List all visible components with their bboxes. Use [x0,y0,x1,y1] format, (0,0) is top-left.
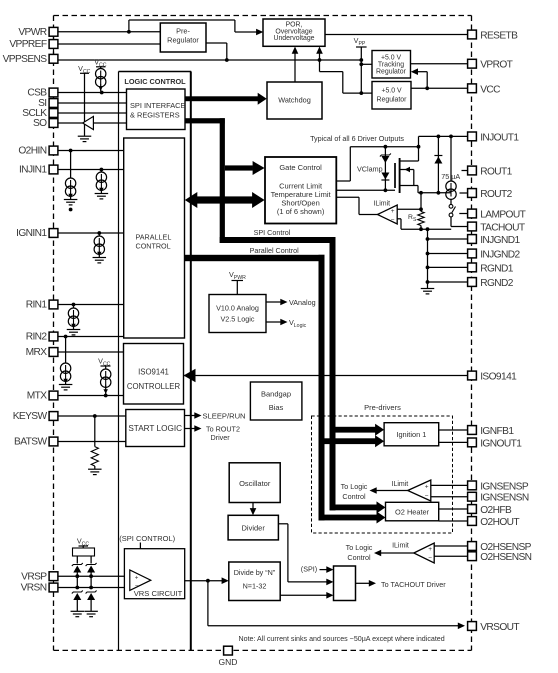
svg-text:VRS CIRCUIT: VRS CIRCUIT [134,589,183,598]
svg-text:−: − [135,583,139,590]
svg-text:Tracking: Tracking [378,62,404,69]
svg-text:Bandgap: Bandgap [261,390,291,399]
svg-text:Regulator: Regulator [376,69,407,76]
svg-text:ILimit: ILimit [392,542,409,549]
svg-text:Pre-: Pre- [176,27,190,36]
svg-text:To Logic: To Logic [346,543,373,552]
svg-text:TACHOUT: TACHOUT [480,223,525,234]
svg-text:Control: Control [342,492,366,501]
svg-text:VPPSENS: VPPSENS [3,54,48,65]
svg-text:INJOUT1: INJOUT1 [480,132,519,143]
svg-text:VRSP: VRSP [21,571,47,582]
svg-text:IGNIN1: IGNIN1 [16,228,47,239]
svg-text:INJGND1: INJGND1 [480,235,520,246]
svg-text:VPROT: VPROT [480,60,512,71]
svg-text:+5.0 V: +5.0 V [381,55,402,62]
svg-text:MTX: MTX [27,391,48,402]
svg-text:IGNOUT1: IGNOUT1 [480,438,522,449]
svg-text:BATSW: BATSW [14,437,47,448]
svg-text:IGNSENSP: IGNSENSP [480,481,529,492]
svg-text:Watchdog: Watchdog [278,95,311,104]
svg-text:O2HSENSN: O2HSENSN [480,552,531,563]
svg-text:SPI INTERFACE: SPI INTERFACE [130,101,186,110]
svg-text:+5.0 V: +5.0 V [381,88,402,95]
svg-text:RGND2: RGND2 [480,278,514,289]
svg-text:+: + [425,484,429,491]
svg-text:GND: GND [219,657,238,667]
svg-text:VPPREF: VPPREF [9,39,47,50]
svg-text:SO: SO [33,118,47,129]
svg-text:Gate Control: Gate Control [279,163,322,172]
svg-text:VCC: VCC [480,84,500,95]
svg-text:VPWR: VPWR [18,27,46,38]
svg-text:VRSN: VRSN [21,583,47,594]
svg-text:Undervoltage: Undervoltage [274,35,315,42]
svg-text:& REGISTERS: & REGISTERS [130,111,180,120]
svg-text:START LOGIC: START LOGIC [128,424,182,433]
svg-text:To Logic: To Logic [341,482,368,491]
svg-text:ISO9141: ISO9141 [138,368,169,377]
svg-text:CSB: CSB [27,88,47,99]
svg-text:Typical of all 6 Driver Output: Typical of all 6 Driver Outputs [310,134,404,143]
svg-text:ILimit: ILimit [373,200,390,207]
svg-text:RIN2: RIN2 [26,332,48,343]
svg-text:RIN1: RIN1 [26,300,48,311]
svg-text:Divider: Divider [242,524,266,533]
svg-text:Bias: Bias [269,403,284,412]
svg-text:−: − [391,217,395,224]
svg-text:SPI Control: SPI Control [254,228,291,237]
svg-text:O2HOUT: O2HOUT [480,517,519,528]
svg-text:O2 Heater: O2 Heater [395,507,430,516]
svg-text:RESETB: RESETB [480,31,518,42]
svg-text:PARALLEL: PARALLEL [136,233,172,242]
svg-text:V2.5 Logic: V2.5 Logic [221,315,255,324]
svg-text:RGND1: RGND1 [480,263,514,274]
svg-text:ROUT2: ROUT2 [480,189,512,200]
svg-text:To TACHOUT Driver: To TACHOUT Driver [381,580,446,589]
svg-text:IGNSENSN: IGNSENSN [480,493,529,504]
svg-text:−: − [428,555,432,562]
svg-text:Driver: Driver [211,433,231,442]
svg-text:(1 of 6 shown): (1 of 6 shown) [277,207,325,216]
svg-text:−: − [425,493,429,500]
svg-text:MRX: MRX [26,347,48,358]
svg-text:VAnalog: VAnalog [289,298,316,307]
svg-text:LAMPOUT: LAMPOUT [480,210,525,221]
svg-text:CONTROLLER: CONTROLLER [127,382,181,391]
svg-text:Oscillator: Oscillator [239,479,271,488]
svg-text:LOGIC CONTROL: LOGIC CONTROL [124,77,186,86]
svg-text:O2HIN: O2HIN [18,146,46,157]
svg-text:Pre-drivers: Pre-drivers [364,403,401,412]
svg-text:ILimit: ILimit [392,481,409,488]
svg-text:IGNFB1: IGNFB1 [480,426,514,437]
svg-text:+: + [428,546,432,553]
svg-text:Note: All current sinks and s: Note: All current sinks and sources ~50µ… [239,635,445,643]
svg-text:Parallel Control: Parallel Control [250,246,300,255]
svg-text:Ignition 1: Ignition 1 [396,430,426,439]
svg-text:KEYSW: KEYSW [13,411,48,422]
svg-text:Regulator: Regulator [377,97,408,104]
svg-text:O2HFB: O2HFB [480,505,512,516]
svg-text:SLEEP/RUN: SLEEP/RUN [203,411,246,420]
svg-text:ISO9141: ISO9141 [480,372,517,383]
svg-text:VClamp: VClamp [357,165,383,174]
svg-text:Divide by “N”: Divide by “N” [234,568,276,577]
svg-text:(SPI): (SPI) [301,564,317,573]
svg-text:+: + [391,208,395,215]
svg-text:Control: Control [347,553,371,562]
svg-text:Regulator: Regulator [167,36,199,45]
svg-text:CONTROL: CONTROL [136,241,171,250]
svg-text:V10.0 Analog: V10.0 Analog [216,304,259,313]
svg-text:INJIN1: INJIN1 [19,165,47,176]
svg-text:VRSOUT: VRSOUT [480,622,519,633]
svg-text:(SPI CONTROL): (SPI CONTROL) [119,534,175,543]
svg-text:N=1-32: N=1-32 [243,582,267,591]
svg-text:INJGND2: INJGND2 [480,250,520,261]
svg-text:ROUT1: ROUT1 [480,167,512,178]
svg-text:+: + [135,575,139,582]
